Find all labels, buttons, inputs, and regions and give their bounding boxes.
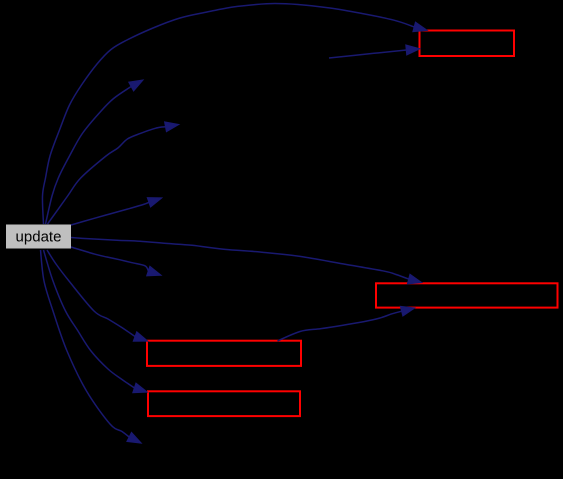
node update (current) — [6, 225, 71, 249]
svg-text:update: update — [16, 228, 62, 245]
edge update->Node3 (long) — [71, 238, 422, 284]
edge update->nodeE — [41, 250, 142, 443]
node Node5 (red box) — [148, 391, 300, 416]
edge Node4->Node3 — [278, 306, 415, 341]
edge update->nodeD — [71, 247, 161, 276]
edge update->nodeC — [71, 198, 162, 225]
edge update->Node4 — [47, 250, 148, 341]
node Node4 (red box) — [147, 341, 301, 366]
node Node2 (top-right red box) — [420, 31, 515, 57]
edge update->nodeA — [46, 80, 143, 224]
edge update->nodeB — [48, 122, 179, 224]
edge nodeA->Node2 — [329, 45, 420, 58]
node Node3 (middle-right red box) — [376, 283, 558, 307]
edge update->Node2 (top arc) — [42, 4, 427, 225]
edge update->Node5 — [44, 250, 148, 393]
